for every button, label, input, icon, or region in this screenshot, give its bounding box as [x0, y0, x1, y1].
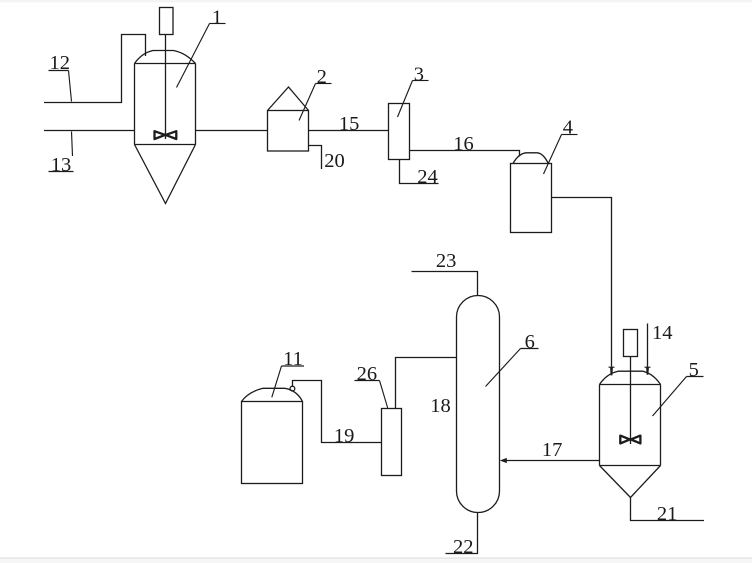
svg-text:22: 22 [453, 536, 474, 558]
svg-text:16: 16 [453, 133, 474, 155]
svg-text:13: 13 [51, 154, 72, 176]
svg-text:2: 2 [317, 66, 327, 88]
svg-text:19: 19 [334, 425, 355, 447]
svg-text:14: 14 [652, 322, 673, 344]
svg-text:3: 3 [414, 64, 424, 86]
svg-text:5: 5 [689, 359, 699, 381]
svg-text:4: 4 [563, 116, 573, 138]
svg-text:20: 20 [324, 150, 345, 172]
svg-text:12: 12 [49, 52, 70, 74]
svg-text:24: 24 [417, 166, 438, 188]
svg-text:6: 6 [525, 331, 535, 353]
svg-text:21: 21 [657, 503, 678, 525]
svg-text:15: 15 [339, 113, 360, 135]
svg-text:11: 11 [283, 348, 303, 370]
svg-text:1: 1 [212, 7, 222, 29]
svg-text:18: 18 [430, 395, 451, 417]
svg-text:26: 26 [357, 363, 378, 385]
svg-text:23: 23 [436, 250, 457, 272]
svg-text:17: 17 [542, 439, 563, 461]
